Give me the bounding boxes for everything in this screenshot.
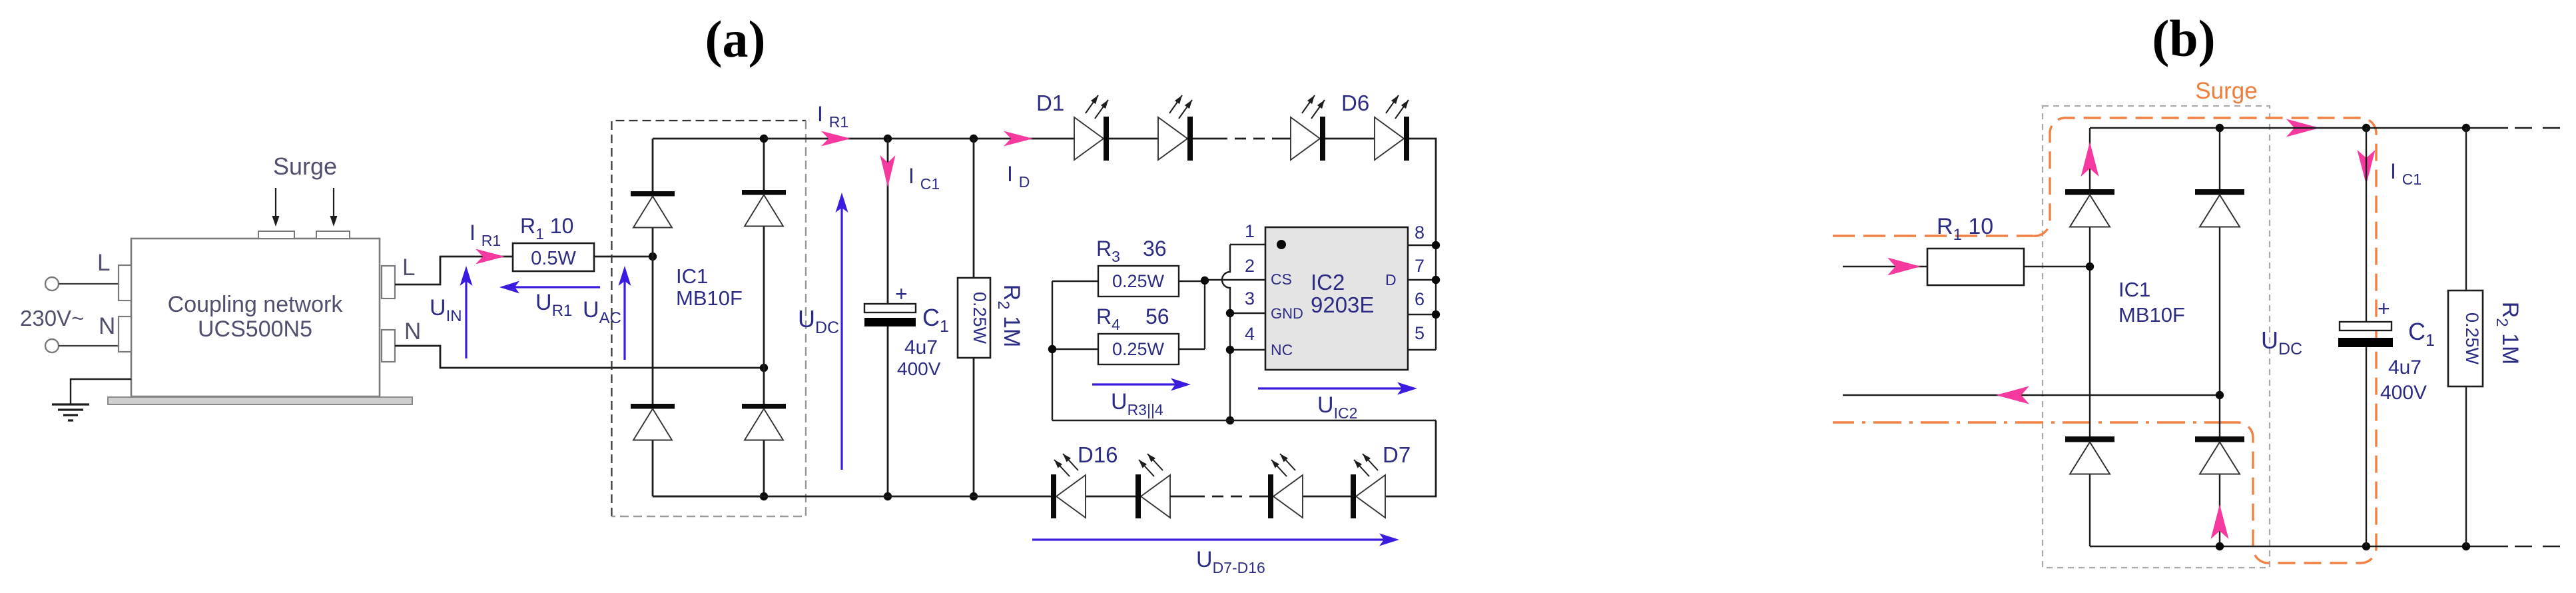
svg-text:+: + [2378, 296, 2390, 320]
svg-text:36: 36 [1143, 237, 1167, 261]
svg-text:9203E: 9203E [1311, 293, 1374, 317]
svg-text:IC1: IC1 [2118, 278, 2150, 301]
svg-text:4u7: 4u7 [2388, 356, 2421, 378]
svg-text:UCS500N5: UCS500N5 [198, 316, 312, 342]
svg-text:Coupling network: Coupling network [168, 292, 344, 317]
svg-text:IC1: IC1 [676, 265, 708, 288]
svg-text:NC: NC [1271, 341, 1293, 358]
svg-text:0.25W: 0.25W [1112, 339, 1165, 359]
svg-text:400V: 400V [2380, 382, 2427, 404]
svg-text:400V: 400V [897, 358, 941, 379]
svg-text:0.25W: 0.25W [2462, 312, 2482, 365]
svg-text:6: 6 [1415, 289, 1425, 309]
svg-text:IC2: IC2 [1311, 270, 1345, 295]
svg-text:3: 3 [1245, 289, 1255, 308]
svg-text:GND: GND [1271, 305, 1303, 322]
svg-text:D7: D7 [1383, 442, 1411, 467]
svg-text:1: 1 [1245, 221, 1255, 241]
svg-text:2: 2 [1245, 256, 1255, 276]
svg-text:L: L [97, 250, 110, 276]
svg-text:8: 8 [1415, 223, 1425, 243]
svg-text:5: 5 [1415, 323, 1425, 343]
svg-text:CS: CS [1271, 271, 1292, 288]
svg-text:MB10F: MB10F [2118, 303, 2185, 326]
svg-text:230V~: 230V~ [20, 306, 84, 330]
svg-text:4u7: 4u7 [904, 336, 938, 358]
svg-text:D1: D1 [1036, 91, 1064, 115]
svg-text:0.5W: 0.5W [531, 248, 576, 269]
svg-text:(b): (b) [2152, 9, 2215, 67]
svg-text:7: 7 [1415, 256, 1425, 276]
svg-text:MB10F: MB10F [676, 287, 743, 310]
svg-text:Surge: Surge [273, 153, 337, 180]
svg-text:0.25W: 0.25W [1112, 271, 1165, 291]
svg-text:D: D [1385, 271, 1397, 289]
svg-text:D6: D6 [1341, 91, 1369, 115]
svg-text:Surge: Surge [2195, 78, 2257, 104]
svg-text:L: L [402, 255, 415, 281]
svg-text:56: 56 [1145, 304, 1169, 328]
svg-text:0.25W: 0.25W [970, 292, 990, 344]
svg-text:(a): (a) [705, 10, 766, 68]
svg-text:+: + [895, 282, 908, 306]
svg-text:D16: D16 [1078, 442, 1118, 467]
svg-text:N: N [404, 318, 421, 344]
svg-text:N: N [99, 313, 115, 339]
svg-text:4: 4 [1245, 324, 1255, 344]
